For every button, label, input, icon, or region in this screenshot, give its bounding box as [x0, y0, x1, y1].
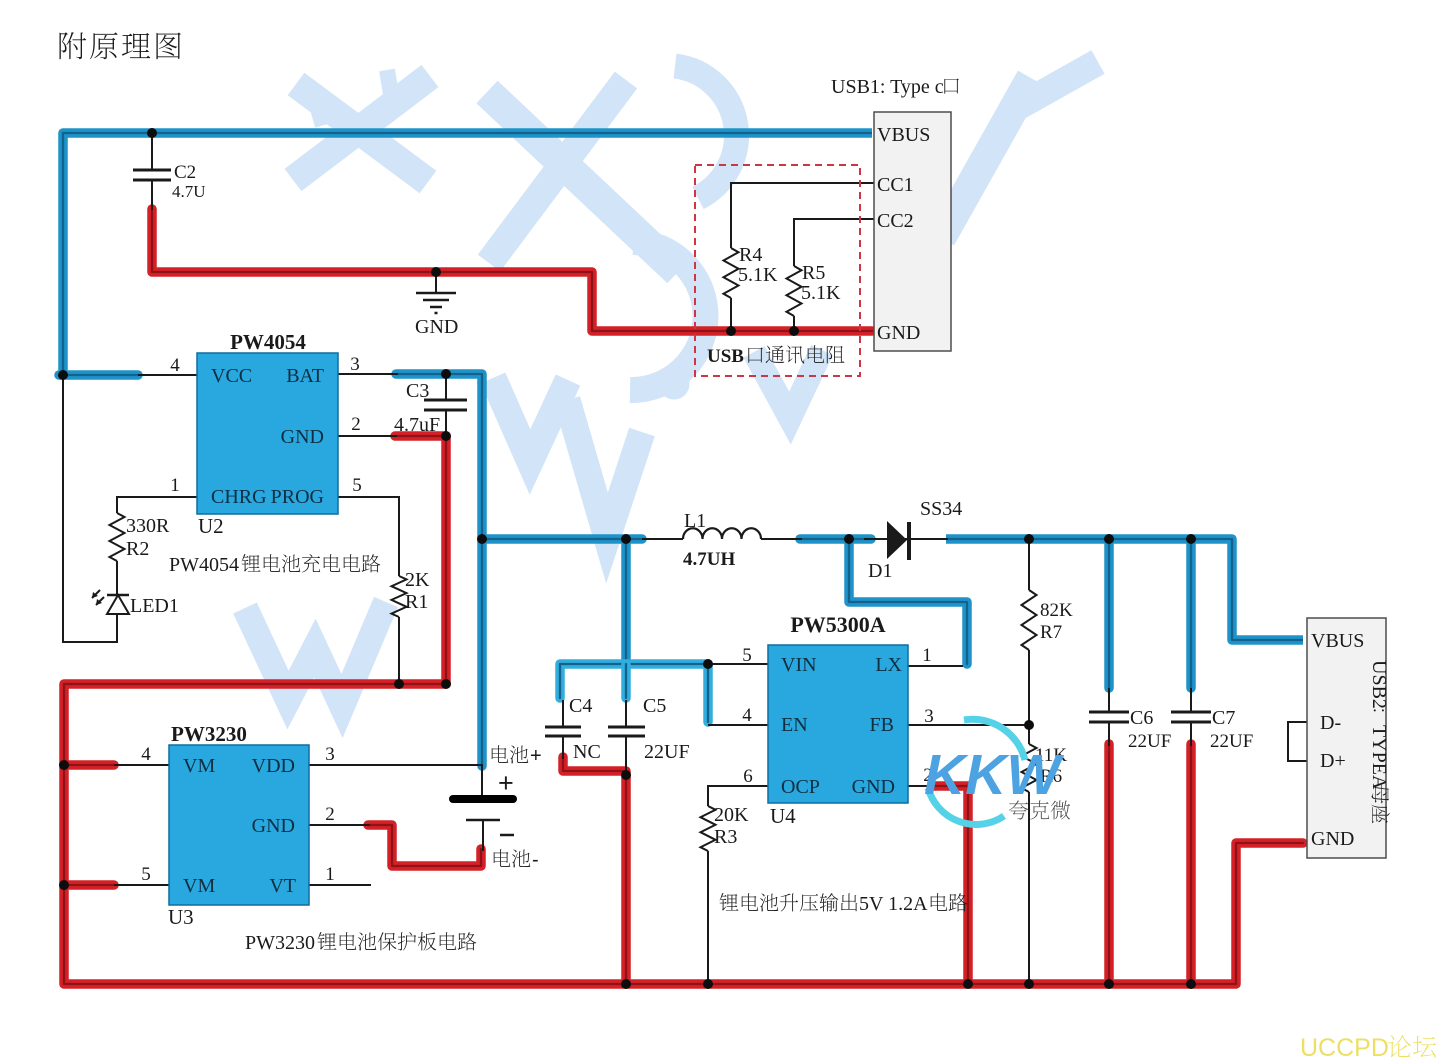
svg-text:+: + [530, 745, 542, 767]
wire R4 to GND bus [730, 298, 732, 331]
capacitor C7 [1171, 712, 1211, 722]
wire battery bottom lead [482, 820, 484, 851]
wire L1 to blue segment [761, 538, 802, 540]
wire battery top lead [481, 764, 483, 795]
svg-text:TYPEA: TYPEA [1368, 725, 1390, 790]
svg-text:330R: 330R [126, 515, 170, 537]
wire main ground loop red [64, 436, 1303, 984]
wire node to C5 blue vertical [621, 539, 631, 664]
wire C2 bottom lead [151, 181, 153, 210]
svg-text:D-: D- [1320, 712, 1341, 734]
wire C7 top lead [1190, 688, 1192, 711]
wire R5 to GND bus [793, 316, 795, 331]
wire C4 top lead [562, 700, 564, 726]
resistor R4 [724, 248, 739, 298]
svg-text:BAT: BAT [286, 365, 324, 387]
wire C7 to ground red [1186, 744, 1196, 983]
wire BAT pin3 [338, 373, 398, 375]
wire C4 C5 to ground red [563, 757, 626, 984]
wire C5 top lead [625, 700, 627, 726]
svg-text:22UF: 22UF [644, 741, 690, 763]
battery BT1 minus plate [466, 819, 500, 822]
svg-text:PROG: PROG [271, 486, 324, 508]
wire battery node to L1 blue [482, 534, 642, 544]
svg-text:USB2: USB2 [1368, 660, 1390, 709]
resistor R5 [787, 266, 802, 316]
wire U3 GND pin2 [309, 824, 370, 826]
wire C7 bottom lead [1190, 723, 1192, 746]
svg-text:C5: C5 [643, 695, 666, 717]
resistor R6 [1022, 744, 1037, 792]
svg-text:VDD: VDD [252, 755, 295, 777]
svg-text:1: 1 [922, 645, 932, 666]
svg-text:+: + [498, 768, 514, 798]
wire C4 bottom lead [562, 737, 564, 759]
LED D LED1 [92, 590, 129, 614]
wire C3 bottom lead [445, 411, 447, 436]
wire R3 to ground bus [707, 851, 709, 984]
svg-text:NC: NC [573, 741, 601, 763]
svg-text:VIN: VIN [781, 654, 817, 676]
svg-text:PW3230: PW3230 [171, 722, 247, 746]
svg-text:R7: R7 [1040, 622, 1062, 643]
wire R7 to FB node [1028, 650, 1030, 744]
svg-text:3: 3 [924, 706, 934, 727]
svg-text:3: 3 [325, 744, 335, 765]
svg-text:2: 2 [351, 414, 361, 435]
svg-text:5V 1.2A: 5V 1.2A [859, 893, 928, 915]
svg-text:-: - [532, 849, 539, 871]
svg-text:PW5300A: PW5300A [790, 612, 885, 637]
svg-text:D1: D1 [868, 560, 892, 582]
svg-text:VM: VM [183, 875, 215, 897]
wire L1 to D1 blue segment [800, 534, 871, 544]
resistor R3 [701, 806, 716, 851]
wire C6 to ground red [1104, 744, 1114, 983]
wire R6 to ground bus [1028, 792, 1030, 984]
connector USB2 body [1307, 618, 1386, 858]
wire U3 VT pin1 [309, 884, 371, 886]
svg-text:R5: R5 [802, 262, 825, 284]
wire VM pin4 stub red [64, 760, 114, 770]
svg-text:U3: U3 [168, 905, 194, 929]
svg-text:GND: GND [252, 815, 295, 837]
wire VM pin5 stub red [64, 880, 114, 890]
svg-text:4: 4 [742, 705, 752, 726]
svg-text:GND: GND [415, 316, 458, 338]
svg-text:C2: C2 [174, 162, 196, 183]
svg-text:22UF: 22UF [1210, 731, 1253, 752]
watermark partial glyphs light blue [245, 62, 1098, 706]
svg-text:LED1: LED1 [130, 595, 179, 617]
svg-text:VBUS: VBUS [877, 124, 930, 146]
wire PROG pin5 to R1 [338, 497, 399, 576]
wire C5 bottom lead [625, 737, 627, 775]
wire C3 top lead [445, 374, 447, 399]
label 锂电池升压输出5V 1.2A电路 caption [720, 893, 739, 911]
svg-text:CC1: CC1 [877, 174, 914, 196]
capacitor C6 [1089, 712, 1129, 722]
svg-text:EN: EN [781, 714, 808, 736]
wire C6 top lead [1108, 688, 1110, 711]
resistor R1 [392, 576, 407, 617]
op-chip U3 PW3230 body [169, 745, 309, 905]
svg-text:OCP: OCP [781, 776, 820, 798]
svg-text:3: 3 [350, 354, 360, 375]
wire U4 GND to ground red [932, 786, 968, 983]
wire EN elbow blue [703, 664, 713, 722]
svg-text:R3: R3 [714, 826, 737, 848]
wire U3 VM pin5 [114, 884, 169, 886]
diode D1 SS34 [887, 521, 909, 560]
wire C6 drop blue [1104, 541, 1114, 688]
svg-text:4.7UH: 4.7UH [683, 549, 735, 570]
wire VCC pin4 [138, 374, 197, 376]
svg-text:PW4054: PW4054 [169, 554, 239, 576]
svg-text:GND: GND [1311, 828, 1354, 850]
svg-text:6: 6 [743, 766, 753, 787]
op-chip U2 PW4054 body [197, 353, 338, 514]
svg-text:USB: USB [707, 346, 744, 367]
svg-text:R1: R1 [405, 591, 428, 613]
logo 夸克微 [1009, 800, 1029, 819]
wire D1 to USB2 VBUS blue [946, 539, 1303, 640]
wire U3 VDD pin3 to battery [309, 764, 482, 766]
svg-text:CHRG: CHRG [211, 486, 267, 508]
svg-text:KKW: KKW [924, 743, 1064, 807]
wire D- D+ jumper [1288, 722, 1307, 761]
resistor R2 [110, 513, 125, 561]
svg-text:GND: GND [877, 322, 920, 344]
wire VBUS blue top bus [63, 133, 872, 371]
wire OCP pin6 to R3 [708, 786, 768, 806]
connector USB1 body [874, 112, 951, 351]
svg-text:PW3230: PW3230 [245, 932, 315, 954]
svg-text:5: 5 [141, 864, 151, 885]
svg-text:VBUS: VBUS [1311, 630, 1364, 652]
wire LX elbow blue [849, 541, 967, 664]
battery BT1 plus plate [449, 795, 517, 803]
label USB2: TYPEA socket vertical [1368, 660, 1390, 823]
svg-text:VT: VT [269, 875, 296, 897]
wire C2 to USB1 GND red [152, 209, 872, 331]
label 电池- [494, 849, 511, 867]
svg-text:GND: GND [852, 776, 895, 798]
svg-text:SS34: SS34 [920, 498, 962, 520]
wire R1 to ground bus [398, 617, 400, 684]
wire C5 stub blue [621, 664, 631, 698]
wire D1 section [864, 538, 948, 540]
ground GND symbol [416, 272, 456, 313]
wire blue stub to VCC node [59, 370, 138, 380]
svg-text:FB: FB [870, 714, 894, 736]
svg-text:L1: L1 [684, 510, 706, 532]
svg-text:22UF: 22UF [1128, 731, 1171, 752]
wire C7 drop blue [1186, 541, 1196, 688]
svg-text:C3: C3 [406, 380, 429, 402]
svg-text:LX: LX [875, 654, 902, 676]
svg-text:82K: 82K [1040, 600, 1073, 621]
title 附原理图 [59, 32, 86, 59]
wire main line L1 section [642, 538, 683, 540]
svg-text:USB1: Type c: USB1: Type c [831, 76, 944, 98]
svg-text:R2: R2 [126, 538, 149, 560]
label 电池+ [492, 745, 509, 763]
wire FB pin3 to R6 R7 [908, 724, 1029, 726]
svg-text:UCCPD: UCCPD [1300, 1034, 1389, 1062]
svg-text:5.1K: 5.1K [738, 264, 778, 286]
svg-text:4: 4 [141, 744, 151, 765]
svg-text:5: 5 [742, 645, 752, 666]
wire R2 to LED1 [116, 561, 118, 595]
svg-text:1: 1 [325, 864, 335, 885]
svg-text:VM: VM [183, 755, 215, 777]
svg-text:5.1K: 5.1K [801, 282, 841, 304]
svg-text:1: 1 [170, 475, 180, 496]
svg-text:4.7uF: 4.7uF [394, 414, 440, 436]
battery minus sign [500, 834, 514, 837]
svg-text:2: 2 [325, 804, 335, 825]
wire LX pin1 [908, 665, 963, 667]
wire BAT to battery+ blue [396, 374, 482, 766]
svg-text:C4: C4 [569, 695, 592, 717]
wire U4 GND pin2 [908, 785, 934, 787]
wire CC2 to R5 [794, 219, 874, 266]
capacitor C4 [545, 727, 581, 736]
wire U2 GND pin2 [338, 435, 397, 437]
svg-text:CC2: CC2 [877, 210, 914, 232]
svg-text:D+: D+ [1320, 750, 1346, 772]
wire R7 top [1028, 539, 1030, 590]
svg-text:C7: C7 [1212, 707, 1235, 729]
wire U3 VM pin4 [114, 764, 169, 766]
svg-text:R4: R4 [739, 244, 762, 266]
wire C4-C5-VIN blue horizontal [560, 664, 708, 698]
capacitor C3 [424, 400, 467, 410]
wire EN pin4 [708, 724, 768, 726]
node USB comm resistor dashed box [695, 165, 860, 376]
svg-text:20K: 20K [714, 804, 749, 826]
svg-text:C6: C6 [1130, 707, 1153, 729]
svg-text:2K: 2K [405, 569, 430, 591]
wire C6 bottom lead [1108, 723, 1110, 746]
svg-text:4: 4 [170, 355, 180, 376]
wire VIN pin5 [708, 663, 768, 665]
resistor R7 [1022, 590, 1037, 650]
inductor L1 [683, 528, 761, 539]
svg-text:4.7U: 4.7U [172, 182, 206, 201]
capacitor C5 [608, 727, 645, 736]
wire U3 GND to battery- red [368, 825, 481, 866]
wire CC1 to R4 [731, 183, 874, 248]
capacitor C2 [133, 170, 171, 180]
logo KKW arcs [928, 719, 1025, 824]
svg-text:5: 5 [352, 475, 362, 496]
svg-text:PW4054: PW4054 [230, 330, 306, 354]
svg-text:GND: GND [281, 426, 324, 448]
svg-text:VCC: VCC [211, 365, 252, 387]
wire CHRG pin1 to R2 [117, 497, 197, 513]
wire LED loop left [63, 375, 117, 642]
svg-text:U4: U4 [770, 804, 796, 828]
wire C2 top lead [151, 133, 153, 169]
op-chip U4 PW5300A body [768, 645, 908, 803]
svg-text:U2: U2 [198, 514, 224, 538]
